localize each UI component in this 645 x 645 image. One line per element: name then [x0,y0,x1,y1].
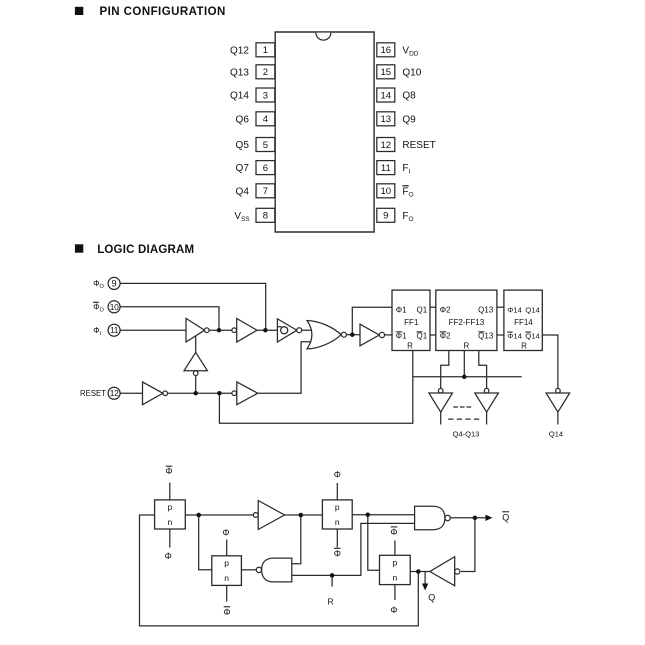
wire inverter U2 output to inverter U3 [205,329,237,331]
svg-text:LOGIC DIAGRAM: LOGIC DIAGRAM [97,244,194,256]
wire inverter U12 output to TG2 [285,514,323,516]
svg-text:Q8: Q8 [402,91,416,102]
node PHI_O-bar label (pin 10) [93,301,99,303]
svg-text:2: 2 [263,67,268,78]
inverter U5 (to FF1 PHI1-bar) [360,324,385,346]
pin 7 box (Q4) [256,184,275,198]
wire control inverter U7 input from reset line [195,371,197,394]
node 9 pin circle [108,277,120,289]
label PHI-bar above TG4 [391,526,398,528]
junction [416,569,421,574]
junction [263,328,268,333]
svg-text:Q9: Q9 [402,114,416,125]
junction [350,332,355,337]
oscillator gate U4 (triangle with circle) [277,319,301,342]
wire TG1 output to inverter U12 [185,514,256,516]
wire R net to NAND G2/G3 inputs [292,523,415,575]
control inverter U7 (upward, enable for U2) [184,352,207,375]
svg-text:n: n [393,573,398,583]
wire TG2 p-gate to PHI [336,483,338,500]
svg-text:11: 11 [110,325,119,335]
wire buffer U11 output Q14 [557,412,559,424]
wire TG3 p-gate to PHI [226,540,228,556]
svg-text:Q14: Q14 [525,305,540,314]
section header bullet: LOGIC DIAGRAM [75,244,83,252]
svg-text:n: n [168,517,173,527]
svg-text:6: 6 [263,163,268,174]
pin 1 box (Q12) [256,43,275,57]
svg-text:p: p [168,502,173,512]
wire inverter U5 output to FF1 PHI1-bar input [379,334,392,336]
svg-text:16: 16 [381,45,392,56]
svg-text:Q4: Q4 [236,186,250,197]
transmission gate TG1 [155,500,186,529]
svg-text:11: 11 [381,163,391,174]
wire NOR G1 output to FF1 PHI1 input [352,307,392,335]
pin 16 box (VDD) [377,43,395,57]
svg-text:p: p [335,502,340,512]
svg-text:Q: Q [502,512,509,522]
junction [217,328,222,333]
inverter U3 (inverting input bubble) [232,318,257,342]
wire R label stub [331,575,333,586]
section header bullet: PIN CONFIGURATION [75,7,83,15]
node 12 pin circle [108,387,120,399]
inverter U8 (inverting input bubble, reset row) [232,382,258,405]
svg-text:n: n [224,573,229,583]
wire inverter U8 output to NOR G1 input B [258,342,313,394]
output buffer U9 (Q4) [429,388,453,412]
svg-text:12: 12 [110,388,119,398]
svg-text:p: p [393,558,398,568]
inverter U13 (slave, left-pointing) [430,557,460,586]
pin 8 box (VSS) [256,208,275,222]
wire TG1 p-gate to PHI-bar [169,483,171,500]
svg-text:10: 10 [110,302,119,312]
wire control inverter U7 output to U2 enable [195,336,197,353]
flip-flop FF14 [504,290,542,351]
wire pin11 to inverter U2 input [120,329,186,331]
flip-flops FF2-FF13 [436,290,497,351]
pin 15 box (Q10) [377,65,395,79]
wire TG2 n-gate to PHI-bar [336,529,338,548]
svg-text:Φ: Φ [390,527,397,537]
wire FF1 Q1 to FF2 PHI2 [430,306,436,308]
transmission gate TG4 [380,555,411,584]
wire pin10 to node after inverter U2 [120,307,219,330]
svg-text:Φ1: Φ1 [396,305,407,314]
svg-text:Φ14: Φ14 [507,305,522,314]
label Q-bar output [502,511,509,513]
svg-text:13: 13 [381,114,392,125]
wire FF2-FF13 R input to reset bus [463,351,465,377]
wire inverter U13 output to TG4 [410,571,430,573]
junction [193,391,198,396]
wire NAND G3 output to Q-bar [449,517,487,519]
svg-text:p: p [224,558,229,568]
wire FF13 Q13-bar to FF14 PHI14-bar [497,334,504,336]
pin 4 box (Q6) [256,112,275,126]
svg-text:Q1: Q1 [417,305,428,314]
NOR gate G1 [307,321,346,349]
pin 6 box (Q7) [256,161,275,175]
junction [330,573,335,578]
pin 3 box (Q14) [256,88,275,102]
svg-text:8: 8 [263,211,268,222]
wire FF stage output to buffer U9 [441,351,449,391]
svg-text:Q7: Q7 [236,163,250,174]
svg-text:Q5: Q5 [236,140,250,151]
wire FF1 Q1-bar to FF2 PHI2-bar [430,334,436,336]
svg-text:7: 7 [263,186,268,197]
inverter U2 (clock input, with enable) [186,318,209,342]
wire inverter U6 output to inverter U8 [163,392,237,394]
output arrow Q-bar [486,515,493,521]
pin 12 box (RESET) [377,138,395,152]
svg-text:Q14: Q14 [525,331,540,340]
pin 14 box (Q8) [377,88,395,102]
junction [366,512,371,517]
svg-text:Φ: Φ [223,607,230,617]
wire inverter U3 output to oscillator gate U4 [257,329,277,331]
pin 5 box (Q5) [256,138,275,152]
svg-text:14: 14 [381,90,392,101]
wire buffer U9 output Q4 [440,412,442,424]
svg-text:Φ1: Φ1 [396,331,407,340]
wire pin9 to node after inverter U3 [120,283,266,330]
svg-text:Q4-Q13: Q4-Q13 [453,429,480,438]
wire Q output stub [424,572,426,585]
svg-text:Q13: Q13 [478,305,494,314]
svg-text:FF2-FF13: FF2-FF13 [449,318,485,327]
svg-text:9: 9 [112,279,117,289]
svg-text:15: 15 [381,67,392,78]
wire TG3 n-gate to PHI-bar [226,585,228,601]
pin 11 box (FI) [377,161,395,175]
junction [299,513,304,518]
svg-text:Φ2: Φ2 [440,305,451,314]
label PHI-bar above TG1 [166,465,173,467]
svg-text:FF1: FF1 [404,318,419,327]
pin 9 box (FO) [377,208,395,222]
wire FF13 Q13 to FF14 PHI14 [497,306,504,308]
node 10 pin circle [108,301,120,313]
svg-text:Q: Q [428,593,435,603]
wire TG1 n-gate to PHI [169,529,171,548]
svg-text:Q14: Q14 [230,91,249,102]
output buffer U10 (Q13) [475,388,499,412]
pin 10 label FOB [402,185,408,187]
svg-text:Q10: Q10 [402,67,421,78]
output arrow Q [422,584,428,591]
svg-text:Q1: Q1 [417,331,428,340]
svg-text:R: R [521,342,527,351]
svg-text:PIN CONFIGURATION: PIN CONFIGURATION [100,6,226,18]
svg-text:R: R [328,596,334,606]
junction [196,513,201,518]
wire NOR G1 output to inverter U5 [346,334,360,336]
wire TG2 output to NAND G3 input A [352,514,414,516]
wire inverter U12 output to NAND G2 input A [292,515,301,564]
node 11 pin circle [108,324,120,336]
label PHI-bar below TG3 [224,606,231,608]
svg-text:Φ: Φ [222,527,229,537]
svg-text:R: R [464,342,470,351]
svg-text:FF14: FF14 [514,318,533,327]
label PHI-bar below TG2 [334,547,341,549]
svg-text:4: 4 [263,114,268,125]
svg-text:R: R [407,342,413,351]
IC package U1 body (DIP-16) [275,32,374,232]
svg-text:Φ: Φ [165,466,172,476]
junction [462,375,467,380]
wire Q-bar node to inverter U13 input [461,518,475,572]
inverter U12 (master stage) [253,501,284,530]
pin 10 box (FOB) [377,184,395,198]
wire gate U4 output to NOR G1 input A [302,329,313,331]
svg-text:12: 12 [381,140,392,151]
wire FF stage output to buffer U10 [479,351,487,391]
ellipsis dashes between output buffers [448,407,479,419]
wire TG3 to NAND G2 output bubble [241,569,256,571]
flip-flop FF1 [392,290,430,351]
svg-text:9: 9 [383,211,388,222]
transmission gate TG2 [322,500,352,529]
output buffer U11 (Q14) [546,388,570,412]
NAND gate G2 (master feedback, mirrored) [256,558,292,582]
svg-text:Q13: Q13 [230,67,249,78]
pin 2 box (Q13) [256,65,275,79]
svg-text:RESET: RESET [80,389,106,398]
wire feedback Q node to TG1 input [140,515,419,626]
svg-text:Q14: Q14 [549,429,563,438]
wire reset bus R to flip-flops [413,376,522,378]
NAND gate G3 (slave, output Q-bar) [415,506,451,529]
svg-text:Φ14: Φ14 [507,331,522,340]
junction [473,516,478,521]
svg-text:3: 3 [263,90,268,101]
svg-text:Φ: Φ [165,551,172,561]
wire TG4 n-gate to PHI [394,585,396,600]
wire master node to TG3 [199,515,212,570]
wire buffer U10 output Q13 [486,412,488,424]
pin 13 box (Q9) [377,112,395,126]
svg-text:Φ: Φ [334,470,341,480]
svg-text:n: n [335,517,340,527]
svg-text:Q13: Q13 [478,331,494,340]
wire pin12 to inverter U6 input [120,392,143,394]
wire reset line to FF1 R input [219,351,412,424]
transmission gate TG3 [212,556,242,586]
svg-text:Q6: Q6 [236,114,250,125]
wire TG4 p-gate to PHI-bar [394,541,396,556]
inverter U6 (RESET input) [143,382,168,405]
svg-text:Q12: Q12 [230,45,249,56]
svg-text:Φ2: Φ2 [440,331,451,340]
wire TG2 output to TG4 input [368,515,380,571]
svg-text:1: 1 [263,45,268,56]
junction [217,391,222,396]
svg-text:Φ: Φ [334,548,341,558]
wire FF14 Q14-bar to output buffer U11 [542,335,558,391]
svg-text:RESET: RESET [402,140,435,151]
svg-text:10: 10 [381,186,392,197]
svg-text:Φ: Φ [390,605,397,615]
svg-text:5: 5 [263,140,268,151]
